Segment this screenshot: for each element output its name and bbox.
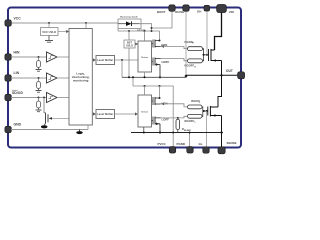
wire LON out — [161, 104, 188, 107]
wire LS1 output — [115, 59, 138, 61]
pin LIN — [5, 75, 11, 81]
wire PVCC rail — [133, 86, 173, 147]
node gate join — [203, 54, 205, 56]
node OD tap — [43, 97, 45, 99]
node pvcc-rail crossing — [172, 132, 174, 134]
svg-text:PVCC: PVCC — [158, 142, 167, 146]
wire LS source drop — [221, 116, 223, 151]
pin OUT — [238, 72, 245, 79]
driver U9 high-side — [138, 41, 152, 72]
wire HON out — [161, 47, 188, 49]
wire GND — [11, 129, 88, 131]
pin BOOT — [169, 5, 175, 11]
pin OU/SE — [183, 5, 189, 11]
svg-text:SENSE: SENSE — [227, 141, 237, 145]
ground below UVLO — [45, 36, 53, 43]
node LS1 SW tap — [121, 59, 123, 61]
wire HIN — [11, 56, 47, 58]
node GH tap — [206, 54, 208, 56]
wire BOOT pin elbow — [152, 12, 173, 29]
wire HS source drop — [221, 61, 223, 76]
wire logic VCC stub — [85, 23, 87, 29]
buffer U4 LIN schmitt — [47, 73, 58, 83]
node source-rail — [220, 131, 222, 133]
level shifter U7 low — [96, 110, 115, 119]
IC package outline — [8, 8, 241, 148]
pin PGND — [187, 147, 193, 153]
wire LS gate join — [202, 107, 208, 116]
node HIN pulldown — [38, 56, 40, 58]
wire GH riser — [206, 12, 208, 55]
svg-text:UVLO: UVLO — [126, 45, 133, 48]
node boot join — [151, 27, 153, 29]
pin PVCC — [169, 147, 175, 153]
node OU/SE-HON — [185, 46, 187, 48]
driver U10 low-side — [138, 95, 152, 127]
wire PVCC-SW link — [132, 77, 134, 86]
svg-text:GND: GND — [14, 123, 22, 127]
wire HOFF out — [161, 59, 188, 61]
wire OU/SE riser — [185, 12, 187, 76]
wire ref bottom lead — [128, 48, 130, 77]
transistor Q1 open-drain — [44, 98, 46, 113]
wire VCC rail — [8, 22, 118, 24]
wire HIN buffer out — [57, 56, 69, 58]
wire GL riser — [206, 111, 208, 150]
svg-text:Level Shifter: Level Shifter — [97, 112, 113, 116]
node boot-hon — [151, 30, 153, 32]
buffer U5 SD schmitt — [47, 93, 58, 103]
wire LS2 output — [115, 113, 136, 115]
resistor R_BLEED — [177, 117, 179, 119]
pin VCC — [5, 20, 11, 26]
pin GND — [5, 126, 11, 132]
svg-text:Level Shifter: Level Shifter — [97, 58, 113, 62]
node SW-ref — [128, 76, 130, 78]
node SD pulldown — [38, 97, 40, 99]
pin SD/OD — [5, 94, 11, 100]
node logic VCC tap — [85, 22, 87, 24]
node pgnd — [189, 132, 191, 134]
node pvcc-lon — [159, 85, 161, 87]
wire UVLO top lead — [48, 23, 50, 28]
pin SENSE — [218, 147, 225, 154]
pin GH — [204, 5, 210, 11]
wire logic to LS2 — [92, 113, 93, 115]
wire UVLO output to logic — [58, 31, 67, 33]
wire low driver bottom lead — [143, 127, 145, 133]
logic block U1 — [69, 29, 92, 126]
svg-text:Driver: Driver — [141, 112, 148, 114]
wire VIN path — [215, 12, 222, 51]
node pvcc-driver — [144, 85, 146, 87]
transistor Q7 low-side power FET — [208, 106, 222, 117]
wire LOFF out — [161, 116, 188, 118]
svg-text:HIN: HIN — [14, 51, 20, 55]
ground blob — [79, 130, 81, 132]
wire driver top lead — [144, 31, 146, 41]
transistor Q3 HOFF — [152, 58, 161, 78]
svg-text:SD/OD: SD/OD — [12, 91, 23, 95]
UVLO comparator U2 — [41, 28, 59, 36]
wire LS drain path — [218, 75, 222, 107]
wire low driver top lead — [144, 86, 146, 95]
wire diode out to boot rail — [139, 24, 152, 31]
svg-text:Bootstrap diode: Bootstrap diode — [120, 16, 138, 19]
wire SD buffer out — [57, 97, 69, 99]
wire SW rail — [122, 75, 186, 77]
svg-text:BLEED: BLEED — [184, 130, 192, 132]
wire LIN — [11, 77, 47, 79]
pin HIN — [5, 54, 11, 60]
svg-text:PGND: PGND — [177, 142, 186, 146]
wire boot rail — [118, 29, 160, 31]
resistor HIN pulldown — [38, 57, 40, 61]
level shifter U6 high — [96, 56, 115, 65]
node GL tap — [206, 110, 208, 112]
svg-text:RGOFF: RGOFF — [185, 119, 195, 123]
wire logic GND lead — [87, 125, 89, 130]
wire ref to driver arrow — [134, 43, 137, 45]
wire OUT line — [186, 74, 238, 76]
transistor Q2 HON — [152, 31, 165, 48]
svg-text:VCC: VCC — [14, 17, 22, 21]
wire logic to LS1 — [92, 59, 93, 61]
BST UVLO box U8 — [124, 40, 135, 48]
resistor RGOFF_H — [188, 59, 203, 63]
node boot-ref — [128, 30, 130, 32]
svg-text:monitoring: monitoring — [73, 79, 89, 83]
node SW-driver — [144, 76, 146, 78]
svg-text:GH: GH — [197, 10, 201, 14]
wire driver bottom lead — [144, 72, 146, 77]
node low gate join — [203, 110, 205, 112]
svg-text:VIN: VIN — [229, 10, 234, 14]
svg-text:Driver: Driver — [141, 57, 148, 59]
ground below Q1 — [41, 125, 48, 128]
wire LS1 SW drop — [121, 60, 123, 77]
buffer U3 HIN schmitt — [47, 52, 58, 62]
svg-text:LIN: LIN — [14, 71, 20, 75]
node LOFF rail — [159, 131, 161, 133]
svg-text:OU/SE: OU/SE — [175, 10, 184, 14]
node OUT-FET — [220, 74, 222, 76]
node VCC-UVLO tap — [48, 22, 50, 24]
resistor LIN pulldown — [38, 78, 40, 82]
svg-text:VCC UVLO: VCC UVLO — [42, 30, 56, 34]
svg-text:BOOT: BOOT — [157, 10, 166, 14]
wire HS gate join — [203, 49, 209, 61]
resistor SD pulldown — [38, 98, 40, 102]
node OU/SE-SW — [185, 75, 188, 78]
svg-text:HOFF: HOFF — [162, 60, 170, 64]
transistor Q5 LON — [152, 86, 165, 105]
node HOFF SW — [159, 76, 161, 78]
wire SD — [11, 97, 47, 99]
transistor Q6 LOFF — [152, 117, 161, 133]
wire LIN buffer out — [57, 77, 69, 79]
pin GL — [203, 147, 209, 153]
resistor RGOFF_L — [188, 114, 203, 118]
diode D1 bootstrap — [118, 16, 146, 32]
svg-text:OUT: OUT — [226, 69, 233, 73]
node driver-rail — [143, 132, 145, 134]
node LIN pulldown — [38, 77, 40, 79]
wire PGND riser — [189, 133, 191, 148]
wire ref top lead — [128, 31, 130, 40]
wire PGND rail — [131, 132, 223, 134]
transistor Q4 high-side power FET — [209, 49, 222, 62]
pin VIN — [217, 5, 227, 13]
node boot-driver — [144, 30, 146, 32]
svg-text:GL: GL — [199, 142, 203, 146]
